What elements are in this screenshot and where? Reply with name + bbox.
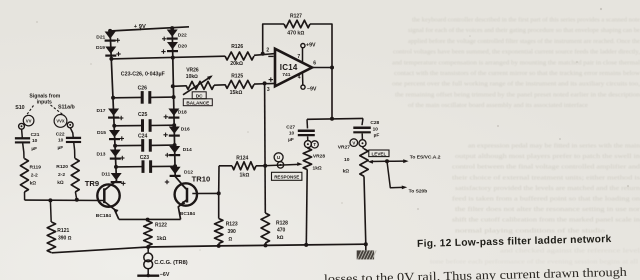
svg-text:R119: R119 [30, 164, 42, 170]
svg-text:2-2: 2-2 [58, 172, 65, 178]
svg-text:S10: S10 [15, 105, 24, 111]
svg-text:7: 7 [297, 54, 300, 60]
svg-text:V: V [352, 140, 355, 145]
svg-text:−6V: −6V [160, 272, 170, 278]
svg-text:1kΩ: 1kΩ [240, 173, 250, 179]
svg-text:470: 470 [277, 228, 286, 234]
svg-text:C21: C21 [31, 132, 40, 138]
svg-text:D21: D21 [96, 34, 105, 40]
svg-text:of the main oscillator board a: of the main oscillator board assembly an… [408, 102, 588, 109]
svg-text:R120: R120 [56, 164, 68, 170]
svg-text:satisfactory provided the leve: satisfactory provided the levels are mat… [455, 185, 640, 192]
svg-text:C22: C22 [56, 131, 65, 137]
svg-text:R124: R124 [236, 156, 248, 162]
svg-text:LEVEL: LEVEL [371, 152, 386, 157]
svg-text:µF: µF [31, 146, 37, 152]
svg-text:and temperature compensation i: and temperature compensation is arranged… [392, 59, 640, 66]
svg-text:VR27: VR27 [338, 145, 351, 151]
svg-text:normal playing conditions of t: normal playing conditions of the studio [455, 227, 605, 234]
svg-text:R127: R127 [290, 13, 302, 19]
svg-text:VR28: VR28 [313, 153, 326, 159]
svg-text:signal for each of the voices: signal for each of the voices and their … [408, 27, 640, 34]
svg-text:BC184: BC184 [180, 211, 196, 217]
svg-text:kΩ: kΩ [277, 235, 284, 241]
svg-text:D11: D11 [102, 172, 111, 178]
svg-text:R121: R121 [57, 228, 69, 234]
svg-text:1kΩ: 1kΩ [157, 236, 167, 242]
svg-text:C27: C27 [286, 125, 295, 131]
svg-text:D22: D22 [178, 32, 187, 38]
svg-text:output although most players p: output although most players prefer to p… [455, 153, 640, 160]
svg-text:TR9: TR9 [85, 179, 99, 188]
svg-text:µF: µF [288, 137, 294, 143]
svg-text:+ 9V: + 9V [134, 24, 146, 30]
svg-text:IC14: IC14 [280, 63, 298, 72]
svg-text:kΩ: kΩ [343, 168, 350, 174]
svg-text:BALANCE: BALANCE [186, 100, 209, 105]
svg-text:20kΩ: 20kΩ [230, 61, 243, 67]
svg-text:D19: D19 [96, 45, 105, 51]
svg-text:Ω: Ω [229, 236, 233, 242]
svg-text:an expression pedal may be fit: an expression pedal may be fitted in ser… [468, 143, 640, 150]
svg-text:10: 10 [58, 137, 64, 143]
svg-text:D13: D13 [97, 151, 106, 157]
svg-text:470 kΩ: 470 kΩ [287, 30, 304, 36]
svg-text:Signals from: Signals from [29, 93, 60, 99]
svg-text:To ES/VC.A.2: To ES/VC.A.2 [410, 155, 441, 161]
svg-text:10kΩ: 10kΩ [186, 74, 198, 80]
svg-text:RESPONSE: RESPONSE [274, 174, 299, 179]
svg-text:shift the cutoff calibration f: shift the cutoff calibration from the ma… [452, 217, 640, 224]
svg-text:10: 10 [373, 126, 379, 132]
svg-text:−9V: −9V [307, 86, 317, 92]
svg-text:VR26: VR26 [186, 68, 199, 74]
svg-text:the keyboard controller descri: the keyboard controller described in the… [412, 17, 640, 24]
svg-text:C23-C26, 0·043µF: C23-C26, 0·043µF [121, 71, 166, 77]
svg-text:VV: VV [26, 118, 32, 123]
svg-text:D14: D14 [183, 147, 192, 153]
svg-text:4: 4 [298, 75, 301, 81]
svg-text:10: 10 [289, 131, 295, 137]
svg-text:inputs: inputs [37, 100, 52, 106]
svg-text:feed is taken from a buffered: feed is taken from a buffered point so t… [452, 196, 640, 203]
svg-text:10: 10 [344, 157, 350, 163]
svg-text:To S20b: To S20b [409, 189, 428, 195]
svg-text:R125: R125 [231, 74, 243, 80]
svg-text:TR10: TR10 [192, 174, 211, 183]
svg-text:control voltages have been sum: control voltages have been summed, the e… [393, 49, 640, 56]
svg-text:the remaining offset being tri: the remaining offset being trimmed by th… [395, 91, 640, 98]
svg-text:and checked against the refere: and checked against the reference level [500, 248, 640, 255]
svg-text:one percent over the full work: one percent over the full working range … [392, 81, 640, 88]
svg-text:contact with the transistors o: contact with the transistors of the curr… [394, 70, 640, 77]
svg-text:D18: D18 [178, 109, 187, 115]
svg-text:3: 3 [267, 87, 270, 93]
svg-text:2-2: 2-2 [31, 173, 38, 179]
svg-text:µF: µF [374, 132, 380, 138]
svg-text:C23: C23 [140, 155, 150, 161]
svg-text:R123: R123 [226, 222, 238, 228]
svg-text:C.C.G. (TR8): C.C.G. (TR8) [154, 260, 188, 266]
svg-text:BC184: BC184 [96, 213, 112, 219]
svg-text:C25: C25 [138, 112, 148, 118]
svg-text:VVX: VVX [56, 119, 64, 124]
svg-text:D17: D17 [97, 108, 106, 114]
svg-text:R122: R122 [155, 223, 167, 229]
svg-text:6: 6 [313, 60, 316, 66]
svg-text:the filter does not alter the: the filter does not alter the resonance … [455, 206, 640, 213]
svg-text:390: 390 [228, 229, 237, 235]
svg-text:D15: D15 [97, 130, 106, 136]
svg-text:D20: D20 [178, 43, 187, 49]
svg-text:applied before the voltage con: applied before the voltage controlled fi… [408, 38, 640, 45]
svg-text:1kΩ: 1kΩ [313, 165, 322, 171]
svg-text:kΩ: kΩ [57, 180, 64, 186]
svg-text:kΩ: kΩ [30, 180, 37, 186]
svg-text:their choice of external treat: their choice of external treatment units… [452, 174, 640, 181]
svg-text:R128: R128 [276, 220, 288, 226]
svg-text:741: 741 [282, 72, 290, 78]
svg-text:2: 2 [266, 47, 269, 53]
svg-text:control between the final volt: control between the final voltage contro… [452, 164, 640, 171]
svg-text:15kΩ: 15kΩ [230, 90, 243, 96]
svg-text:C28: C28 [370, 120, 379, 126]
svg-text:+9V: +9V [306, 42, 316, 48]
svg-text:C24: C24 [138, 133, 148, 139]
svg-text:10: 10 [32, 138, 38, 144]
svg-text:D16: D16 [181, 127, 190, 133]
svg-text:S11a/b: S11a/b [58, 104, 76, 110]
svg-text:R126: R126 [231, 44, 243, 50]
svg-text:T: T [313, 142, 316, 147]
svg-text:C26: C26 [138, 85, 148, 91]
svg-text:390 Ω: 390 Ω [58, 236, 72, 242]
svg-text:µF: µF [58, 145, 64, 151]
